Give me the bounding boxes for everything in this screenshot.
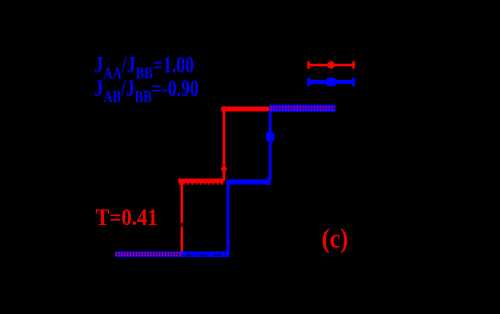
blue vertical V1b (falling transition at x~228) bbox=[227, 184, 230, 252]
legend marker red error bar bbox=[307, 61, 355, 68]
red circle marker on V2 bbox=[221, 166, 227, 172]
legend label line 1: J_AA/J_BB=1.00 bbox=[94, 53, 194, 82]
black dot groups on bottom bar right part bbox=[185, 255, 221, 257]
red dotted overlap texture on top blue bar bbox=[271, 107, 336, 110]
top blue bar (blue curve upper plateau with square symbols) bbox=[269, 105, 336, 112]
red vertical V1 (rising transition at x~181) bbox=[181, 181, 184, 252]
svg-text:(c): (c) bbox=[322, 224, 348, 254]
T=0.41 label bbox=[96, 204, 158, 230]
blue square marker on V2b bbox=[266, 133, 274, 141]
top red bar (red curve upper plateau) bbox=[222, 107, 269, 112]
scallop bumps under red middle bar bbox=[179, 183, 223, 185]
red circle marker at top-left corner of top bar bbox=[221, 106, 227, 112]
legend marker blue error bar bbox=[307, 78, 355, 86]
middle blue bar (blue curve middle plateau) bbox=[227, 179, 271, 184]
middle red bar (red curve middle plateau) bbox=[178, 179, 223, 184]
red dotted overlap texture on bottom bar left part bbox=[116, 253, 181, 255]
red vertical V2 (rising transition at x~224) bbox=[223, 109, 226, 181]
(c) panel label bbox=[322, 224, 348, 254]
dark gap on V1 bbox=[181, 223, 184, 227]
bottom blue bar (blue curve lower plateau with square symbols) bbox=[115, 251, 230, 257]
svg-text:T=0.41: T=0.41 bbox=[96, 204, 158, 230]
legend label line 2: J_AB/J_BB=-0.90 bbox=[94, 77, 198, 107]
blue vertical V2b (falling transition at x~270) bbox=[269, 111, 272, 180]
end cap square at right of middle blue bar bbox=[267, 178, 271, 185]
